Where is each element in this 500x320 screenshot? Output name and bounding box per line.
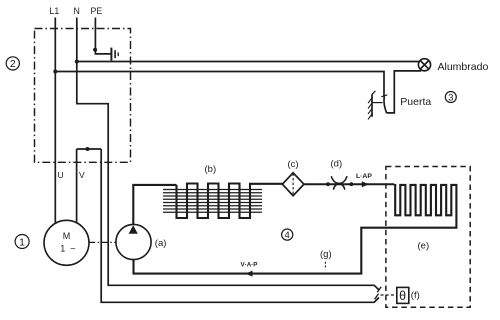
lamp Alumbrado — [418, 59, 430, 71]
cable break ticks — [375, 287, 382, 300]
junction dot valve left — [326, 182, 330, 186]
callout circle 2 — [6, 57, 19, 70]
svg-text:(g): (g) — [320, 249, 332, 260]
junction dot L1 — [53, 70, 57, 74]
door switch blade — [381, 95, 387, 113]
condenser coil e serpentine and suction return line — [134, 185, 457, 274]
expansion device d — [331, 176, 347, 189]
wire from switch to lamp — [386, 71, 421, 113]
svg-text:M: M — [63, 231, 70, 241]
junction dot PE — [93, 48, 97, 52]
refrigerant loop: compressor to evaporator coil b — [133, 185, 176, 225]
mechanical coupling shaft — [89, 241, 116, 243]
junction dot valve right — [350, 182, 354, 186]
door symbol with hatching — [368, 91, 383, 120]
wire switched line from L1 — [55, 72, 384, 97]
condenser enclosure dashed box — [386, 167, 470, 308]
wire to thermostat lower — [101, 149, 379, 302]
wire lamp line from N — [77, 61, 420, 63]
svg-text:(e): (e) — [418, 241, 430, 252]
svg-text:2: 2 — [10, 58, 16, 70]
wire PE — [95, 18, 110, 54]
svg-text:PE: PE — [91, 6, 103, 16]
svg-text:U: U — [58, 170, 64, 180]
compressor pump a — [116, 224, 151, 259]
filter drier c diamond — [282, 173, 304, 196]
svg-text:Alumbrado: Alumbrado — [438, 61, 489, 73]
ground symbol — [111, 48, 118, 61]
capillary dashed link to thermostat — [381, 294, 397, 296]
callout circle 4 — [282, 229, 293, 241]
svg-text:(a): (a) — [155, 238, 167, 249]
svg-text:4: 4 — [285, 230, 290, 241]
svg-text:(b): (b) — [205, 164, 217, 175]
motor M1 circle — [44, 220, 89, 265]
svg-text:Puerta: Puerta — [400, 96, 431, 108]
svg-text:3: 3 — [448, 92, 453, 103]
wire L1 vertical — [54, 18, 56, 224]
liquid line c to evaporator box — [304, 183, 394, 185]
callout circle 1 — [15, 235, 29, 249]
svg-text:(f): (f) — [411, 290, 420, 301]
junction dot N — [75, 60, 79, 64]
enclosure box 2 (dash-dot) — [35, 29, 131, 163]
coil b fins — [163, 190, 262, 213]
evaporator coil b serpentine — [177, 184, 283, 219]
flow arrow V-AP — [245, 271, 252, 277]
svg-text:θ: θ — [399, 289, 406, 303]
label (g) with leader — [320, 249, 332, 269]
svg-text:1 ~: 1 ~ — [60, 243, 76, 253]
svg-text:L·AP: L·AP — [356, 173, 372, 180]
wire N vertical with jog to thermostat wire — [77, 18, 380, 291]
callout circle 3 — [445, 92, 456, 104]
svg-text:N: N — [74, 6, 80, 16]
wire V lead to motor — [76, 149, 78, 223]
svg-text:V·A·P: V·A·P — [241, 262, 258, 269]
flow arrow L-AP — [362, 181, 369, 187]
svg-text:1: 1 — [19, 236, 25, 248]
svg-text:V: V — [79, 170, 85, 180]
junction dot on V connector — [86, 147, 90, 151]
wire V connector — [77, 148, 102, 150]
svg-text:(c): (c) — [288, 159, 299, 170]
svg-text:(d): (d) — [331, 159, 343, 170]
thermostat f box — [397, 287, 409, 303]
svg-text:L1: L1 — [50, 6, 60, 16]
